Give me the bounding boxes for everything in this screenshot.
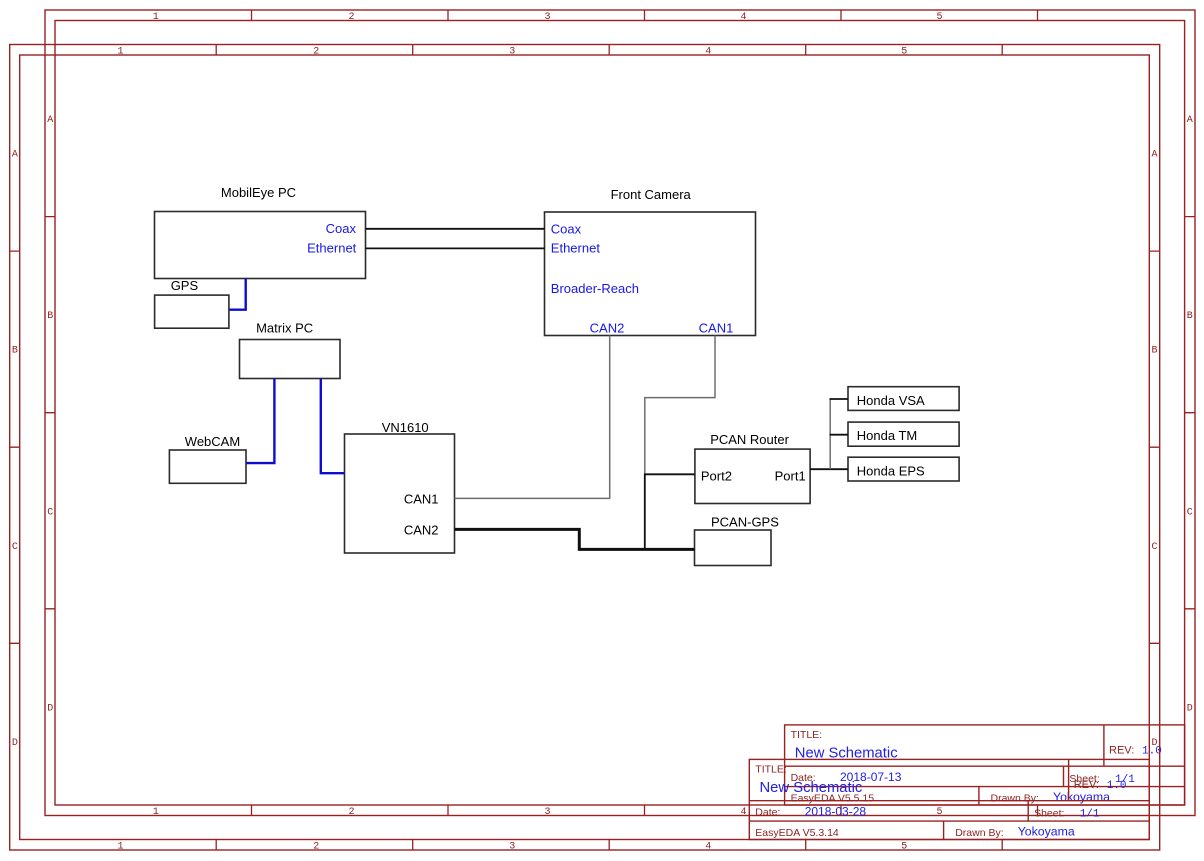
svg-text:Coax: Coax — [326, 221, 357, 236]
svg-text:3: 3 — [509, 47, 515, 58]
svg-text:Honda EPS: Honda EPS — [857, 463, 925, 478]
wire Front Camera CAN1 down-left (gray) — [645, 336, 715, 475]
component box Honda EPS — [848, 457, 959, 481]
svg-text:CAN1: CAN1 — [699, 321, 734, 336]
svg-text:PCAN Router: PCAN Router — [710, 432, 789, 447]
svg-text:B: B — [1151, 346, 1157, 357]
svg-text:2: 2 — [313, 841, 319, 852]
svg-text:D: D — [47, 703, 53, 714]
svg-text:5: 5 — [901, 47, 907, 58]
svg-text:Broader-Reach: Broader-Reach — [551, 281, 639, 296]
wire stub to Honda VSA — [830, 398, 849, 400]
svg-text:A: A — [1151, 150, 1157, 161]
svg-text:A: A — [1187, 115, 1193, 126]
wire Honda branch vertical (gray) — [829, 399, 831, 469]
component box VN1610 — [345, 434, 455, 553]
sheet frame 1 column numbers top — [153, 12, 943, 23]
title block frame 1 — [785, 725, 1185, 805]
svg-text:B: B — [47, 311, 53, 322]
sheet frame 1 column numbers bottom — [153, 807, 943, 818]
component box GPS — [155, 295, 229, 328]
svg-text:1: 1 — [153, 807, 159, 818]
svg-text:Drawn By:: Drawn By: — [991, 793, 1039, 805]
svg-text:C: C — [12, 542, 18, 553]
component box Honda VSA — [848, 387, 959, 411]
component box Honda TM — [848, 422, 959, 446]
svg-text:4: 4 — [705, 841, 711, 852]
wire VN1610 CAN2 thick net to PCAN-GPS — [455, 529, 695, 549]
svg-text:A: A — [47, 115, 53, 126]
title block frame 2 field labels — [755, 763, 1099, 839]
svg-text:Date:: Date: — [755, 807, 780, 819]
svg-text:Front Camera: Front Camera — [611, 187, 692, 202]
svg-text:A: A — [12, 150, 18, 161]
svg-text:Drawn By:: Drawn By: — [955, 827, 1003, 839]
svg-text:Coax: Coax — [551, 222, 582, 237]
title block frame 1 field labels — [791, 729, 1135, 805]
svg-text:Port2: Port2 — [701, 469, 732, 484]
svg-text:Honda TM: Honda TM — [857, 428, 917, 443]
wire stub to Honda TM — [830, 434, 849, 436]
wire Port1 to Honda EPS — [810, 468, 848, 470]
wire junction drop to CAN2 net — [644, 474, 646, 550]
sheet frame 1 row letters left — [47, 115, 53, 714]
wire GPS to MobilEye PC (blue) — [230, 279, 246, 310]
svg-text:Ethernet: Ethernet — [551, 241, 601, 256]
svg-text:4: 4 — [740, 12, 746, 23]
svg-text:Yokoyama: Yokoyama — [1053, 790, 1110, 804]
svg-text:Sheet:: Sheet: — [1034, 808, 1064, 820]
svg-text:CAN1: CAN1 — [404, 491, 439, 506]
svg-text:TITLE:: TITLE: — [791, 729, 823, 741]
svg-text:D: D — [1187, 703, 1193, 714]
component box PCAN Router — [695, 449, 810, 503]
svg-text:2018-03-28: 2018-03-28 — [805, 804, 867, 818]
svg-text:REV:: REV: — [1109, 745, 1134, 757]
wire Matrix PC to VN1610 (blue) — [321, 379, 345, 474]
svg-text:New Schematic: New Schematic — [760, 780, 863, 796]
svg-text:3: 3 — [509, 841, 515, 852]
svg-text:1: 1 — [117, 841, 123, 852]
svg-text:Port1: Port1 — [775, 469, 806, 484]
svg-text:EasyEDA V5.3.14: EasyEDA V5.3.14 — [755, 827, 839, 839]
component box MobilEye PC — [155, 212, 366, 279]
svg-text:B: B — [1187, 311, 1193, 322]
svg-text:4: 4 — [740, 807, 746, 818]
svg-text:PCAN-GPS: PCAN-GPS — [711, 515, 779, 530]
wire WebCAM to Matrix PC (blue) — [246, 379, 274, 464]
component box Front Camera — [545, 212, 756, 336]
svg-text:Honda VSA: Honda VSA — [857, 393, 925, 408]
svg-text:2: 2 — [348, 807, 354, 818]
sheet frame 2 column numbers bottom — [117, 841, 907, 852]
svg-text:3: 3 — [544, 807, 550, 818]
title block frame 1 values — [795, 745, 1162, 804]
svg-text:C: C — [47, 507, 53, 518]
wire Ethernet: MobilEye PC to Front Camera — [366, 247, 545, 249]
svg-text:REV:: REV: — [1074, 779, 1099, 791]
title block frame 2 — [749, 759, 1149, 839]
svg-text:5: 5 — [936, 12, 942, 23]
wire Coax: MobilEye PC to Front Camera — [366, 228, 545, 230]
svg-text:5: 5 — [901, 841, 907, 852]
svg-text:5: 5 — [936, 807, 942, 818]
sheet frame 2 row letters left — [12, 150, 18, 749]
wire Port2 connection — [645, 473, 695, 475]
component box WebCAM — [169, 450, 246, 483]
svg-text:WebCAM: WebCAM — [185, 434, 240, 449]
svg-text:GPS: GPS — [171, 278, 199, 293]
svg-text:MobilEye PC: MobilEye PC — [221, 185, 296, 200]
svg-text:Matrix PC: Matrix PC — [256, 320, 313, 335]
svg-text:CAN2: CAN2 — [590, 321, 625, 336]
svg-text:1: 1 — [117, 47, 123, 58]
svg-text:VN1610: VN1610 — [382, 420, 429, 435]
svg-text:CAN2: CAN2 — [404, 522, 439, 537]
sheet frame 1 row letters right — [1187, 115, 1193, 714]
svg-text:3: 3 — [544, 12, 550, 23]
svg-text:2: 2 — [313, 47, 319, 58]
svg-text:C: C — [1151, 542, 1157, 553]
svg-text:1/1: 1/1 — [1080, 809, 1100, 821]
svg-text:D: D — [1151, 738, 1157, 749]
sheet frame 2 column numbers top — [117, 47, 907, 58]
component box Matrix PC — [240, 340, 341, 379]
svg-text:Yokoyama: Yokoyama — [1018, 825, 1075, 839]
svg-text:B: B — [12, 346, 18, 357]
svg-text:2: 2 — [348, 12, 354, 23]
svg-text:1: 1 — [153, 12, 159, 23]
wire Front Camera CAN2 to VN1610 CAN1 (gray) — [455, 336, 610, 499]
svg-text:Ethernet: Ethernet — [307, 241, 357, 256]
svg-text:TITLE:: TITLE: — [755, 763, 787, 775]
svg-text:D: D — [12, 738, 18, 749]
svg-text:4: 4 — [705, 47, 711, 58]
svg-text:1.0: 1.0 — [1107, 780, 1127, 792]
svg-text:C: C — [1187, 507, 1193, 518]
sheet frame 2 row letters right — [1151, 150, 1157, 749]
component box PCAN-GPS — [695, 530, 772, 566]
title block frame 2 values — [760, 780, 1127, 839]
